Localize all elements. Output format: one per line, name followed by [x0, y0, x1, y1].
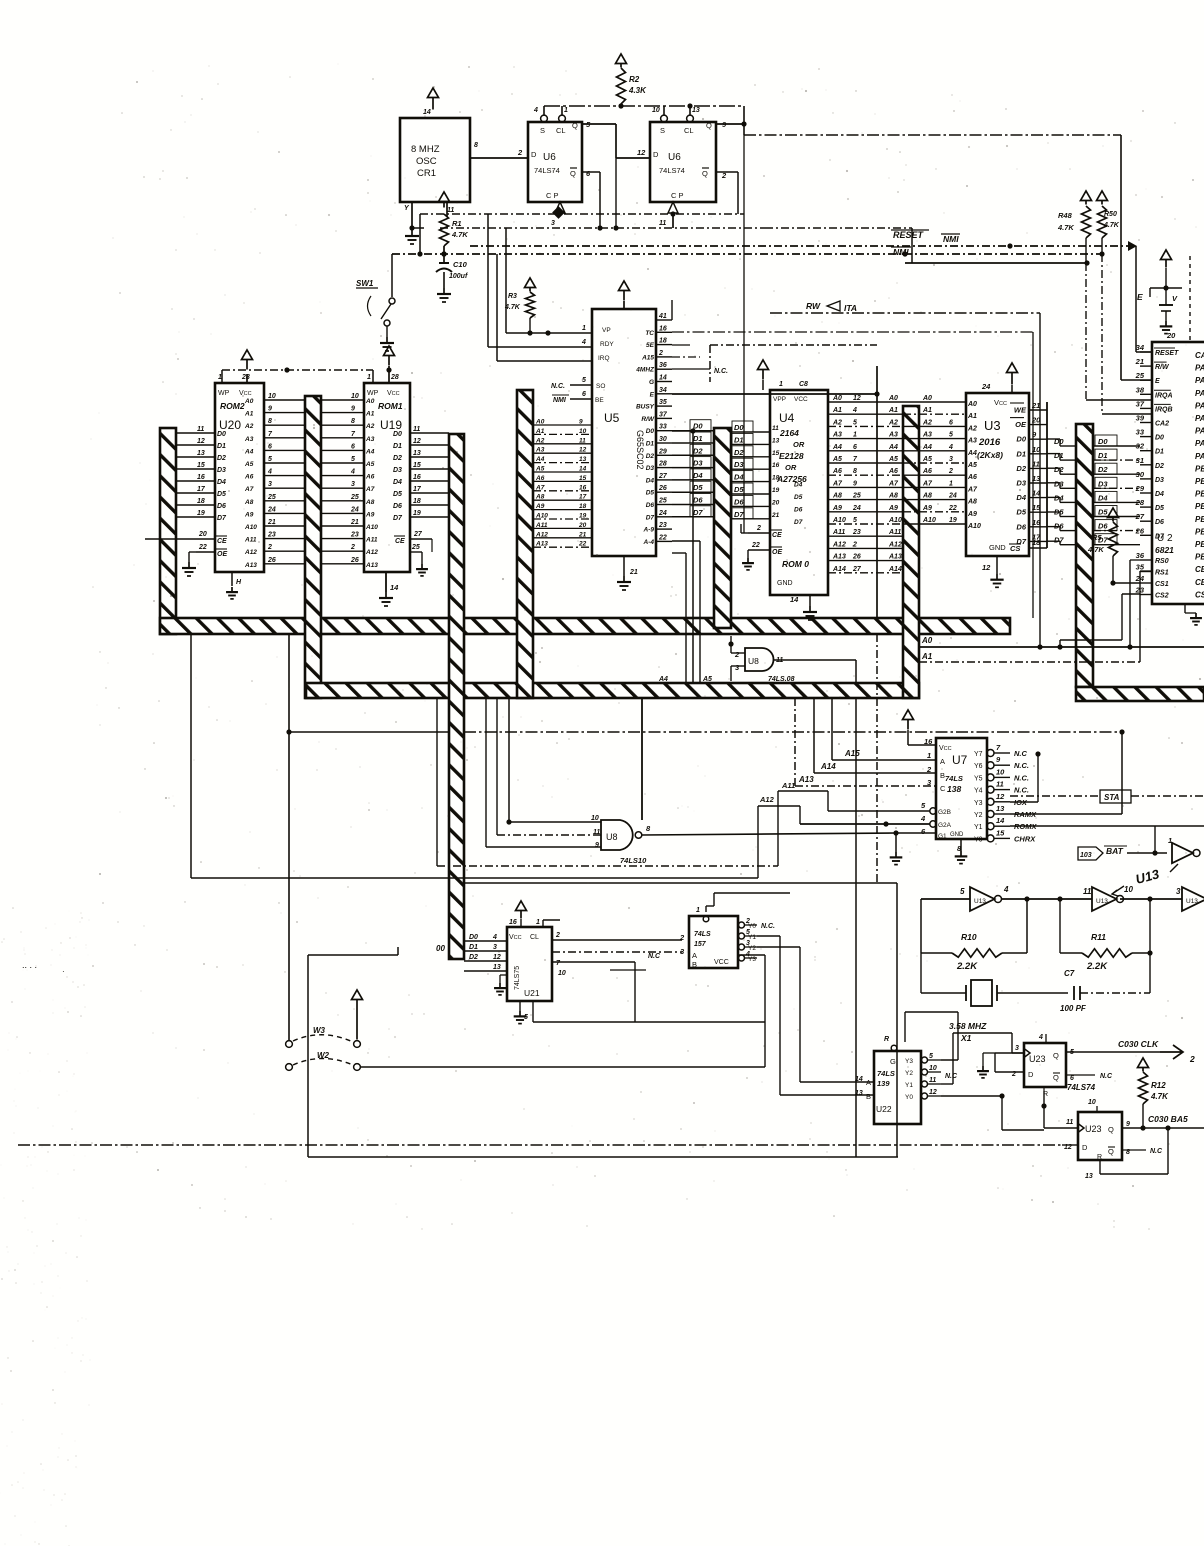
- wires U23a: [977, 1052, 1113, 1128]
- wire y1145 into U23b D: [1062, 1144, 1078, 1146]
- svg-text:3: 3: [493, 944, 497, 951]
- svg-text:Y1: Y1: [974, 824, 983, 831]
- power arrow above U19: [384, 346, 395, 383]
- svg-text:D0: D0: [1098, 437, 1108, 446]
- svg-text:14: 14: [390, 583, 399, 592]
- svg-text:34: 34: [1136, 343, 1145, 352]
- svg-text:19: 19: [772, 487, 780, 494]
- wire x497 down: [496, 254, 498, 361]
- svg-text:5: 5: [853, 517, 857, 524]
- svg-text:22: 22: [751, 542, 760, 549]
- svg-text:A3: A3: [967, 438, 977, 445]
- svg-text:2: 2: [517, 148, 523, 157]
- svg-text:1: 1: [927, 751, 931, 760]
- wire U23a R to U23b CP: [1044, 1127, 1078, 1129]
- svg-text:CL: CL: [530, 934, 539, 941]
- wire x488 down: [487, 214, 489, 347]
- svg-text:BAT: BAT: [1106, 846, 1124, 856]
- wire bottom rail y1157: [308, 1156, 898, 1158]
- decoder U22 74LS139 box: [855, 1036, 921, 1124]
- wire U6b Qbar stub: [716, 172, 738, 214]
- svg-text:VCC: VCC: [509, 934, 522, 941]
- svg-text:PA5: PA5: [1195, 427, 1204, 436]
- svg-text:4.7K: 4.7K: [504, 304, 521, 311]
- svg-text:A4: A4: [967, 450, 977, 457]
- svg-text:19: 19: [579, 513, 587, 520]
- wire U21 pin1 top: [543, 920, 560, 927]
- svg-text:2: 2: [679, 933, 685, 942]
- svg-text:23: 23: [267, 532, 276, 539]
- svg-text:RESET: RESET: [893, 230, 925, 240]
- svg-text:4: 4: [267, 469, 272, 476]
- ram U3 box: [966, 382, 1029, 572]
- svg-text:2: 2: [658, 350, 663, 357]
- svg-text:VP: VP: [602, 327, 611, 334]
- wire W2 right: [361, 1022, 765, 1067]
- U19 CE OE pins: [394, 531, 432, 564]
- svg-text:A2: A2: [967, 425, 977, 432]
- svg-text:PB5: PB5: [1195, 527, 1204, 536]
- U6b CP clock arrow: [659, 202, 678, 228]
- svg-text:3: 3: [1015, 1045, 1019, 1052]
- data bus left vertical: [160, 428, 176, 634]
- svg-text:36: 36: [1136, 551, 1145, 560]
- wire vertical x1121 to U12 E: [1121, 135, 1152, 380]
- svg-text:PA7: PA7: [1195, 452, 1204, 461]
- svg-text:12: 12: [996, 792, 1005, 801]
- gate U8 74LS08: [728, 636, 856, 683]
- svg-text:10: 10: [996, 767, 1005, 776]
- resistor R12 4.7K: [1138, 1058, 1170, 1131]
- svg-text:1: 1: [536, 919, 540, 926]
- data bus right of U5 vertical: [714, 428, 731, 628]
- svg-text:A8: A8: [922, 493, 932, 500]
- wire RESET rail y246: [470, 243, 1136, 265]
- wire big left loop: [308, 947, 398, 1157]
- svg-text:RW: RW: [806, 301, 821, 311]
- address bus left of U5 vertical: [517, 390, 533, 698]
- svg-text:A4: A4: [244, 448, 254, 455]
- svg-text:12: 12: [493, 954, 501, 961]
- svg-text:A4: A4: [658, 676, 668, 683]
- svg-text:A15: A15: [844, 749, 860, 758]
- svg-text:G2B: G2B: [938, 809, 951, 816]
- svg-text:11: 11: [447, 207, 454, 214]
- svg-text:15: 15: [413, 462, 421, 469]
- svg-text:D7: D7: [646, 514, 655, 521]
- U19 address pins: [321, 393, 378, 569]
- svg-text:A6: A6: [832, 468, 842, 475]
- svg-text:A7: A7: [832, 480, 843, 487]
- svg-text:18: 18: [413, 498, 421, 505]
- wire rail y732: [286, 729, 1122, 734]
- svg-text:17: 17: [197, 486, 206, 493]
- svg-text:A3: A3: [535, 447, 545, 454]
- wire U22 Y0 long: [941, 1093, 1044, 1130]
- svg-text:4.7K: 4.7K: [1087, 545, 1104, 554]
- U20 CE OE pins: [145, 531, 227, 562]
- svg-text:13: 13: [772, 437, 780, 444]
- svg-text:A3: A3: [922, 432, 932, 439]
- svg-text:Y2: Y2: [905, 1070, 913, 1077]
- U5 bottom pin: [624, 556, 638, 576]
- svg-text:8: 8: [268, 418, 272, 425]
- svg-text:CS1: CS1: [1155, 581, 1169, 588]
- svg-text:S: S: [660, 126, 665, 135]
- resistor R10 2.2K: [921, 932, 1027, 972]
- U5 control pins: [488, 325, 592, 404]
- svg-text:Y3: Y3: [748, 956, 756, 963]
- wire A14 to U7 B: [814, 698, 936, 773]
- svg-text:A7: A7: [888, 480, 899, 487]
- svg-text:74LS74: 74LS74: [1067, 1083, 1096, 1092]
- svg-text:CS: CS: [1010, 544, 1020, 553]
- svg-text:VCC: VCC: [714, 959, 729, 966]
- svg-text:D2: D2: [693, 446, 703, 455]
- rom U4 box: [770, 381, 828, 604]
- svg-text:D6: D6: [1155, 519, 1164, 526]
- svg-text:Q: Q: [1108, 1147, 1114, 1156]
- svg-text:N.C.: N.C.: [714, 368, 728, 375]
- svg-text:27: 27: [658, 473, 668, 480]
- ground under U19 OE: [416, 564, 428, 576]
- svg-text:D2: D2: [217, 455, 226, 462]
- svg-text:21: 21: [350, 519, 359, 526]
- wire U22 Y3 loop: [905, 1012, 958, 1060]
- address bus right of U19 vertical: [449, 434, 464, 959]
- svg-text:3: 3: [268, 481, 272, 488]
- svg-text:25: 25: [350, 494, 359, 501]
- svg-text:A5: A5: [702, 676, 712, 683]
- svg-text:PA6: PA6: [1195, 439, 1204, 448]
- svg-text:E: E: [650, 391, 655, 398]
- svg-text:N.C.: N.C.: [1014, 786, 1029, 795]
- svg-text:19: 19: [413, 510, 421, 517]
- svg-text:CB2: CB2: [1195, 578, 1204, 587]
- svg-text:22: 22: [658, 534, 667, 541]
- svg-text:.. . .: .. . .: [22, 960, 37, 970]
- svg-text:21: 21: [1135, 357, 1144, 366]
- svg-text:157: 157: [694, 941, 707, 948]
- svg-text:D: D: [1082, 1143, 1088, 1152]
- svg-text:A11: A11: [244, 537, 257, 544]
- U3 right rail: [1046, 402, 1048, 548]
- U12 bottom ground: [1185, 604, 1202, 625]
- svg-text:(2Kx8): (2Kx8): [977, 450, 1003, 460]
- svg-text:5: 5: [929, 1053, 933, 1060]
- svg-text:37: 37: [659, 411, 668, 418]
- svg-text:R: R: [884, 1036, 889, 1043]
- svg-text:3.58 MHZ: 3.58 MHZ: [949, 1021, 987, 1031]
- svg-text:74LS74: 74LS74: [534, 166, 560, 175]
- labels A0 A1: [919, 636, 1204, 662]
- svg-text:WE: WE: [1014, 406, 1027, 415]
- svg-text:G2A: G2A: [938, 822, 952, 829]
- wire U7 Y outputs right: [1010, 729, 1155, 826]
- svg-text:S: S: [540, 126, 545, 135]
- svg-text:34: 34: [659, 387, 667, 394]
- svg-text:Y7: Y7: [974, 751, 983, 758]
- svg-text:N.C.: N.C.: [551, 383, 565, 390]
- svg-text:A11: A11: [365, 537, 378, 544]
- svg-text:A0: A0: [832, 395, 842, 402]
- svg-text:U23: U23: [1085, 1124, 1102, 1134]
- svg-text:27: 27: [413, 531, 423, 538]
- U3 CS pin: [1009, 538, 1047, 553]
- svg-text:D3: D3: [1054, 479, 1064, 488]
- svg-text:R1: R1: [452, 219, 462, 228]
- wire U6b Q up right: [716, 106, 747, 533]
- svg-text:D0: D0: [1054, 437, 1064, 446]
- svg-text:A7: A7: [967, 486, 978, 493]
- svg-text:R11: R11: [1091, 932, 1106, 942]
- wire R/W vertical x693: [672, 428, 696, 683]
- svg-text:N.C: N.C: [1014, 749, 1028, 758]
- svg-text:4.7K: 4.7K: [1057, 223, 1074, 232]
- wire U22 Y1 to U23a: [941, 1033, 1024, 1084]
- svg-text:33: 33: [1136, 428, 1145, 437]
- svg-text:2: 2: [734, 650, 740, 659]
- svg-text:N.C: N.C: [1100, 1073, 1113, 1080]
- svg-text:U6: U6: [543, 152, 556, 163]
- main data bus horizontal: [160, 618, 1010, 634]
- svg-text:OE: OE: [217, 551, 227, 558]
- svg-text:19: 19: [949, 517, 957, 524]
- svg-text:D5: D5: [1098, 508, 1108, 517]
- wire U8 74LS10 output to U7 G1: [642, 833, 896, 835]
- svg-text:35: 35: [659, 399, 667, 406]
- U20 bottom pin: [232, 572, 242, 586]
- svg-text:Q: Q: [1108, 1125, 1114, 1134]
- wire OSC ground leg: [409, 202, 424, 231]
- svg-text:00: 00: [436, 944, 445, 953]
- svg-text:Q: Q: [1053, 1051, 1059, 1060]
- ground under U20: [226, 587, 238, 599]
- svg-text:D1: D1: [469, 944, 478, 951]
- U7 output pins Y7-Y0: [974, 743, 1037, 843]
- svg-text:1: 1: [564, 107, 568, 114]
- svg-text:D7: D7: [734, 510, 744, 519]
- svg-text:CE: CE: [395, 538, 405, 545]
- wire rail y228: [440, 225, 912, 263]
- svg-text:21: 21: [771, 512, 780, 519]
- svg-text:D5: D5: [393, 491, 402, 498]
- svg-text:14: 14: [659, 375, 667, 382]
- svg-text:18: 18: [772, 475, 780, 482]
- U4 address pins to bus: [828, 395, 903, 573]
- svg-text:A9: A9: [832, 505, 842, 512]
- wire bottom rail y1145: [18, 1144, 1062, 1146]
- svg-text:9: 9: [1126, 1121, 1130, 1128]
- power arrow above R2: [616, 54, 627, 68]
- svg-text:138: 138: [947, 784, 961, 794]
- svg-text:17: 17: [413, 486, 422, 493]
- svg-text:23: 23: [852, 529, 861, 536]
- svg-text:A10: A10: [888, 517, 902, 524]
- wire 157 top loop: [706, 893, 790, 912]
- svg-text:20: 20: [1166, 331, 1176, 340]
- svg-text:GND: GND: [989, 543, 1006, 552]
- U21 input pins: [436, 934, 507, 971]
- wire rail y214: [420, 206, 744, 219]
- svg-text:24: 24: [350, 506, 359, 513]
- svg-text:11: 11: [413, 426, 420, 433]
- svg-text:GND: GND: [950, 832, 964, 838]
- svg-text:A2: A2: [244, 423, 254, 430]
- svg-text:OR: OR: [785, 463, 797, 472]
- svg-text:D: D: [531, 150, 537, 159]
- svg-text:12: 12: [197, 438, 205, 445]
- ground under U7: [955, 851, 968, 864]
- svg-text:21: 21: [629, 569, 638, 576]
- svg-text:6: 6: [268, 443, 272, 450]
- svg-text:D1: D1: [393, 443, 402, 450]
- svg-text:A8: A8: [832, 493, 842, 500]
- wire E net: [672, 366, 880, 883]
- svg-text:D7: D7: [217, 515, 227, 522]
- svg-text:A10: A10: [922, 517, 936, 524]
- svg-text:12: 12: [413, 438, 421, 445]
- svg-text:Y4: Y4: [974, 788, 983, 795]
- svg-text:A0: A0: [365, 398, 375, 405]
- svg-text:A5: A5: [888, 456, 898, 463]
- svg-text:74LS.08: 74LS.08: [768, 676, 795, 683]
- svg-text:3: 3: [1176, 887, 1181, 896]
- power arrow above U20: [242, 350, 253, 370]
- svg-text:X1: X1: [960, 1033, 972, 1043]
- svg-text:PB0: PB0: [1195, 464, 1204, 473]
- svg-text:VCC: VCC: [794, 396, 808, 403]
- power arrow above U3: [1007, 363, 1018, 393]
- svg-text:A13: A13: [888, 554, 902, 561]
- svg-text:D0: D0: [217, 431, 226, 438]
- label RESET: [891, 230, 960, 244]
- svg-text:13: 13: [579, 456, 587, 463]
- svg-text:A12: A12: [244, 549, 257, 556]
- svg-text:PA4: PA4: [1195, 414, 1204, 423]
- svg-text:2: 2: [756, 525, 761, 532]
- svg-text:A0: A0: [888, 395, 898, 402]
- svg-text:A10: A10: [365, 524, 378, 531]
- svg-text:D3: D3: [693, 459, 703, 468]
- svg-text:24: 24: [852, 505, 861, 512]
- svg-text:D0: D0: [734, 423, 744, 432]
- svg-text:A12: A12: [535, 531, 548, 538]
- address bus U4-U3 vertical: [903, 406, 919, 698]
- svg-text:4.7K: 4.7K: [1150, 1092, 1169, 1101]
- svg-text:G: G: [649, 379, 654, 386]
- oscillator CR1 8MHZ box: [400, 109, 478, 214]
- svg-text:10: 10: [1088, 1099, 1096, 1106]
- svg-text:Y0: Y0: [905, 1094, 913, 1101]
- svg-text:6: 6: [853, 444, 857, 451]
- svg-text:E: E: [1155, 378, 1160, 385]
- svg-text:16: 16: [772, 462, 780, 469]
- svg-text:13: 13: [692, 107, 700, 114]
- svg-text:W3: W3: [313, 1026, 326, 1035]
- data bus right vertical U12: [1076, 424, 1093, 687]
- svg-text:·: ·: [62, 967, 65, 976]
- svg-text:R/W: R/W: [1155, 364, 1170, 371]
- U5 misc right stubs: [672, 300, 728, 375]
- svg-text:11: 11: [1083, 887, 1092, 896]
- wire x856 down: [855, 698, 857, 1157]
- svg-text:D5: D5: [646, 490, 655, 497]
- power arrow above U21: [516, 901, 527, 927]
- address bus mid vertical: [305, 396, 321, 698]
- svg-text:4.7K: 4.7K: [451, 230, 468, 239]
- svg-text:41: 41: [658, 313, 667, 320]
- svg-text:PB3: PB3: [1195, 502, 1204, 511]
- svg-text:25: 25: [1135, 371, 1145, 380]
- svg-text:A11: A11: [832, 529, 845, 536]
- svg-text:4: 4: [852, 407, 857, 414]
- svg-text:Y3: Y3: [974, 800, 983, 807]
- svg-text:W2: W2: [317, 1051, 330, 1060]
- U5 data tap labels: [690, 420, 711, 517]
- svg-text:D5: D5: [1016, 508, 1026, 517]
- svg-text:6: 6: [949, 419, 953, 426]
- rom U19 box: [364, 374, 410, 572]
- svg-text:74LS: 74LS: [877, 1069, 895, 1078]
- svg-text:D1: D1: [693, 434, 703, 443]
- svg-text:RDY: RDY: [600, 341, 614, 348]
- svg-text:RS0: RS0: [1155, 558, 1169, 565]
- svg-text:15: 15: [996, 828, 1005, 837]
- U5 right pins: [635, 313, 672, 546]
- svg-text:CS0: CS0: [1195, 590, 1204, 599]
- svg-text:4MHZ: 4MHZ: [635, 367, 655, 374]
- svg-text:16: 16: [413, 474, 421, 481]
- svg-text:CR1: CR1: [417, 168, 436, 179]
- svg-text:9: 9: [595, 842, 599, 849]
- U5 address pins A0-A13: [533, 419, 592, 548]
- svg-text:A4: A4: [365, 448, 375, 455]
- svg-text:D6: D6: [734, 497, 744, 506]
- svg-text:4: 4: [920, 814, 926, 823]
- inverter U13d: [1168, 836, 1200, 863]
- wire NMI rail y254: [392, 251, 1105, 256]
- wire E dash to U12 top: [1166, 256, 1190, 342]
- label NMI: [891, 247, 911, 257]
- svg-text:A12: A12: [365, 549, 378, 556]
- svg-text:2: 2: [555, 932, 560, 939]
- svg-text:14: 14: [423, 109, 431, 116]
- svg-text:D7: D7: [693, 508, 703, 517]
- wire VCC rail U20-U19: [222, 367, 373, 383]
- svg-text:R/W: R/W: [641, 416, 655, 423]
- svg-text:11: 11: [659, 220, 666, 227]
- svg-text:3: 3: [351, 481, 355, 488]
- svg-text:U7: U7: [952, 753, 968, 767]
- svg-text:4.7K: 4.7K: [1103, 222, 1120, 229]
- flip-flop U6b 74LS74 box: [637, 107, 727, 202]
- svg-text:13: 13: [996, 804, 1005, 813]
- wire U5 A9 A4 stubs: [658, 541, 712, 683]
- svg-text:D4: D4: [646, 477, 655, 484]
- svg-text:9: 9: [853, 480, 857, 487]
- svg-text:A0: A0: [922, 395, 932, 402]
- svg-text:6: 6: [1070, 1075, 1074, 1082]
- svg-text:16: 16: [659, 325, 667, 332]
- svg-text:A10: A10: [535, 513, 548, 520]
- ground under U4: [803, 606, 817, 620]
- svg-text:11: 11: [1066, 1119, 1073, 1126]
- svg-text:26: 26: [350, 557, 359, 564]
- svg-text:A8: A8: [888, 493, 898, 500]
- svg-text:8 MHZ: 8 MHZ: [411, 144, 440, 155]
- svg-text:C P: C P: [671, 191, 684, 200]
